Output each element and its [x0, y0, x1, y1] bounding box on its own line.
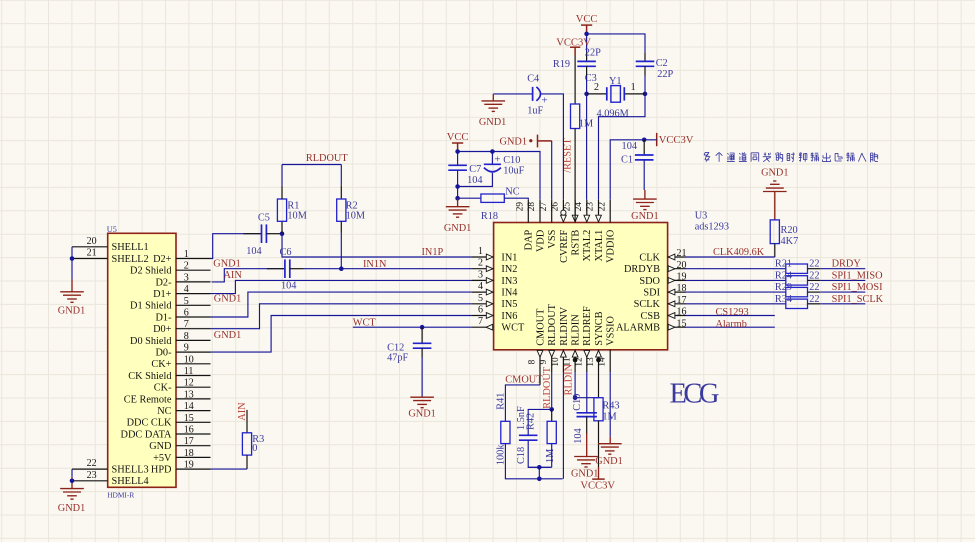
- svg-text:C10: C10: [503, 155, 520, 166]
- svg-text:RSTB: RSTB: [571, 230, 582, 256]
- wire R41 to rail: [505, 444, 562, 479]
- svg-text:SHELL2: SHELL2: [112, 254, 149, 265]
- U3 pin 22 VDDIO: [609, 200, 611, 223]
- svg-text:18: 18: [184, 448, 194, 459]
- svg-text:11: 11: [184, 366, 194, 377]
- svg-text:14: 14: [184, 401, 194, 412]
- wire U5 pin9 to U3 IN6: [211, 316, 473, 353]
- U3 pin 20 DRDYB: [668, 268, 686, 270]
- svg-text:21: 21: [87, 248, 97, 259]
- wire VSSIO to ground: [609, 372, 611, 437]
- svg-text:GND1: GND1: [571, 469, 598, 480]
- svg-text:13: 13: [586, 357, 596, 367]
- wire IN1P to U3 IN1: [282, 234, 472, 257]
- svg-text:C18: C18: [516, 447, 527, 464]
- resistor R34: [786, 299, 808, 308]
- svg-text:21: 21: [677, 248, 687, 259]
- junction: [280, 231, 285, 236]
- U5 pin 19 HPD: [176, 468, 211, 470]
- svg-text:100k: 100k: [495, 444, 506, 465]
- svg-text:20: 20: [87, 236, 97, 247]
- svg-text:D2 Shield: D2 Shield: [130, 266, 172, 277]
- U5 pin 15 DDC CLK: [176, 421, 211, 423]
- ground GND1 under C1: [633, 199, 657, 210]
- svg-text:AIN: AIN: [224, 270, 243, 281]
- svg-text:C2: C2: [656, 58, 668, 69]
- svg-text:23: 23: [87, 470, 97, 481]
- svg-text:GND1: GND1: [58, 503, 85, 514]
- svg-text:SCLK: SCLK: [634, 299, 661, 310]
- svg-text:SPI1_MOSI: SPI1_MOSI: [832, 282, 883, 293]
- svg-text:U3: U3: [695, 211, 708, 222]
- U5 pin 9 D0-: [176, 351, 211, 353]
- svg-text:+: +: [494, 153, 500, 165]
- svg-text:15: 15: [677, 318, 687, 329]
- svg-text:R24: R24: [775, 270, 792, 281]
- wire RLDOUT: [551, 372, 553, 409]
- U3 pin 29 DAP: [527, 200, 529, 223]
- svg-text:D1+: D1+: [153, 289, 172, 300]
- wire IN1P riser from U5 pin1: [211, 234, 262, 259]
- resistor R24: [786, 276, 808, 285]
- U5 pin 10 CK+: [176, 363, 211, 365]
- wire to R18: [458, 197, 481, 199]
- svg-text:5: 5: [478, 293, 483, 304]
- junction: [455, 184, 460, 189]
- svg-text:18: 18: [677, 283, 687, 294]
- wire R19 to RSTB: [574, 129, 576, 223]
- svg-text:GND1: GND1: [761, 168, 788, 179]
- U5 pin 7 D0+: [176, 328, 211, 330]
- U3 pin 15 ALARMB: [668, 326, 686, 328]
- svg-text:VSS: VSS: [547, 229, 558, 248]
- svg-text:IN5: IN5: [501, 299, 517, 310]
- svg-text:10uF: 10uF: [503, 165, 524, 176]
- svg-text:C1: C1: [621, 154, 633, 165]
- svg-text:R42: R42: [525, 413, 536, 430]
- svg-text:GND1: GND1: [479, 117, 506, 128]
- U3 pin 25 RSTB: [574, 200, 576, 223]
- svg-text:VCC: VCC: [447, 132, 469, 143]
- svg-text:10: 10: [551, 357, 561, 367]
- svg-text:12: 12: [184, 378, 194, 389]
- svg-text:DDC DATA: DDC DATA: [121, 429, 173, 440]
- U5 pin 14 NC: [176, 410, 211, 412]
- wire U5 pin4 to U3 IN3: [211, 280, 473, 293]
- svg-text:CK+: CK+: [151, 359, 171, 370]
- svg-text:DDC CLK: DDC CLK: [127, 418, 172, 429]
- IC U3 ads1293 body: [494, 223, 668, 350]
- U5 pin 3 D2-: [176, 281, 211, 283]
- power port VCC3V bottom: [592, 478, 605, 480]
- wire RLDOUT net: [282, 164, 341, 166]
- svg-text:IN2: IN2: [501, 264, 517, 275]
- svg-text:GND1: GND1: [408, 408, 435, 419]
- capacitor C12: [421, 327, 423, 343]
- wire WCT to U3 pin7: [353, 326, 472, 328]
- svg-text:+5V: +5V: [153, 453, 172, 464]
- svg-text:13: 13: [184, 389, 194, 400]
- junction R2 on IN1N: [339, 266, 344, 271]
- chinese note text: [704, 152, 878, 162]
- junction: [455, 196, 460, 201]
- capacitor C10 polarized: [491, 152, 493, 165]
- wire U3 to R21: [686, 268, 786, 270]
- resistor R43: [594, 398, 603, 421]
- svg-text:17: 17: [677, 295, 687, 306]
- wire C18/R42 bottoms: [528, 440, 552, 467]
- svg-text:22: 22: [809, 259, 819, 270]
- resistor R19: [574, 56, 576, 105]
- svg-text:22: 22: [809, 282, 819, 293]
- U3 pin 26 CVREF: [562, 200, 564, 223]
- wire RLDINV to rail: [562, 372, 564, 479]
- svg-text:R29: R29: [775, 282, 792, 293]
- svg-text:R34: R34: [775, 294, 792, 305]
- svg-text:8: 8: [528, 359, 538, 364]
- svg-text:7: 7: [184, 319, 189, 330]
- junction C12 on WCT: [420, 325, 425, 330]
- svg-text:15: 15: [184, 413, 194, 424]
- U5 pin 23 SHELL4: [72, 480, 108, 482]
- svg-text:GND1: GND1: [595, 456, 622, 467]
- wire C12 to ground: [421, 348, 423, 357]
- wire R18 to DAP: [504, 198, 528, 200]
- svg-text:12: 12: [574, 357, 584, 367]
- svg-text:SHELL4: SHELL4: [112, 476, 149, 487]
- svg-text:C6: C6: [280, 247, 292, 258]
- svg-text:VCC: VCC: [576, 14, 598, 25]
- svg-text:Y1: Y1: [609, 76, 622, 87]
- U3 pin 24 XTAL2: [586, 200, 588, 223]
- wire AIN from U5 pin3: [212, 269, 285, 282]
- wire C3 to XTAL2: [586, 66, 588, 75]
- svg-text:IN4: IN4: [501, 288, 517, 299]
- svg-text:CE Remote: CE Remote: [124, 394, 172, 405]
- U3 pin 5 IN5: [472, 303, 494, 305]
- svg-text:19: 19: [677, 272, 687, 283]
- svg-text:6: 6: [184, 308, 189, 319]
- svg-text:VCC3V: VCC3V: [556, 37, 591, 48]
- svg-text:HPD: HPD: [151, 465, 172, 476]
- svg-text:SHELL3: SHELL3: [112, 465, 149, 476]
- svg-text:R18: R18: [481, 211, 498, 222]
- power port VCC3V (R19): [570, 47, 580, 55]
- U3 pin 19 SDO: [668, 279, 686, 281]
- svg-text:GND1: GND1: [214, 293, 241, 304]
- wire U5 pin7 to U3 IN5: [211, 304, 473, 329]
- svg-text:22: 22: [809, 294, 819, 305]
- svg-text:CMOUT: CMOUT: [535, 308, 546, 346]
- svg-text:R43: R43: [602, 400, 619, 411]
- wire C2 to XTAL1 node: [644, 66, 646, 75]
- ground GND1 top-left: [60, 292, 84, 303]
- svg-text:4: 4: [478, 281, 483, 292]
- svg-text:CS1293: CS1293: [716, 307, 749, 318]
- svg-text:RLDREF: RLDREF: [582, 306, 593, 346]
- svg-text:14: 14: [598, 357, 608, 367]
- U3 pin 14 VSSIO: [609, 350, 611, 372]
- svg-text:D0-: D0-: [155, 348, 172, 359]
- U5 pin 2 D2 Shield: [176, 269, 211, 271]
- svg-text:HDMI-R: HDMI-R: [107, 491, 134, 500]
- U3 pin 21 CLK: [668, 256, 686, 258]
- svg-text:104: 104: [573, 428, 584, 443]
- U3 pin 3 IN3: [472, 279, 494, 281]
- U5 pin 20 SHELL1: [72, 246, 108, 248]
- svg-text:SDI: SDI: [643, 288, 660, 299]
- wire R24 out: [808, 279, 821, 281]
- svg-text:GND: GND: [149, 441, 172, 452]
- svg-text:19: 19: [184, 460, 194, 471]
- U3 pin 17 SCLK: [668, 303, 686, 305]
- svg-text:2: 2: [184, 261, 189, 272]
- wire U5 pin22/23 to ground: [71, 469, 73, 477]
- svg-text:5: 5: [184, 296, 189, 307]
- wire ALARMB: [686, 326, 775, 328]
- resistor R21: [786, 264, 808, 273]
- U3 pin 23 XTAL1: [598, 200, 600, 223]
- wire VCC to C2/C3: [587, 34, 645, 52]
- svg-text:RLDOUT: RLDOUT: [547, 303, 558, 345]
- svg-text:C4: C4: [527, 74, 539, 85]
- wire RLDIN to R43: [575, 397, 598, 399]
- ground GND1 bottom-left: [60, 489, 84, 500]
- wire XTAL1 net: [599, 94, 646, 200]
- svg-text:RLDIN: RLDIN: [571, 314, 582, 346]
- U5 pin 11 CK Shield: [176, 375, 211, 377]
- svg-text:20: 20: [677, 260, 687, 271]
- svg-text:26: 26: [551, 202, 561, 212]
- svg-text:NC: NC: [505, 186, 519, 197]
- svg-text:D0+: D0+: [153, 324, 172, 335]
- U5 pin 22 SHELL3: [72, 468, 108, 470]
- svg-text:1: 1: [478, 246, 483, 257]
- wire RLDIN: [574, 372, 576, 398]
- junction: [70, 479, 75, 484]
- wire CLK: [686, 256, 775, 258]
- wire C4 to CVREF: [541, 94, 564, 200]
- ground GND1 under C7: [457, 198, 459, 206]
- wire R34 out: [808, 303, 821, 305]
- U3 pin 1 IN1: [472, 256, 494, 258]
- svg-text:16: 16: [677, 307, 687, 318]
- U5 pin 18 +5V: [176, 456, 211, 458]
- wire U3 to R34: [686, 303, 786, 305]
- U3 pin 8 CMOUT: [539, 350, 541, 372]
- svg-text:NC: NC: [157, 406, 171, 417]
- svg-text:GND1: GND1: [444, 223, 471, 234]
- svg-text:47pF: 47pF: [387, 352, 408, 363]
- svg-text:D2-: D2-: [155, 277, 172, 288]
- svg-text:GND1: GND1: [631, 211, 658, 222]
- power port VCC3V right: [656, 133, 658, 146]
- U3 pin 7 WCT: [472, 326, 494, 328]
- U5 pin 12 CK-: [176, 386, 211, 388]
- svg-text:1: 1: [184, 249, 189, 260]
- svg-text:IN1N: IN1N: [363, 259, 387, 270]
- U5 pin 8 D0 Shield: [176, 339, 211, 341]
- svg-text:17: 17: [184, 436, 194, 447]
- svg-text:VDD: VDD: [535, 229, 546, 252]
- wire RLDREF to C19: [586, 372, 588, 413]
- svg-text:22P: 22P: [657, 69, 673, 80]
- svg-text:IN3: IN3: [501, 276, 517, 287]
- svg-text:GND1: GND1: [500, 137, 527, 148]
- U3 pin 28 VDD: [539, 200, 541, 223]
- svg-text:IN1P: IN1P: [422, 247, 444, 258]
- svg-text:WCT: WCT: [353, 318, 377, 329]
- wire C1 to ground: [643, 160, 645, 190]
- junction: [549, 407, 554, 412]
- svg-text:104: 104: [467, 175, 482, 186]
- svg-text:R19: R19: [553, 59, 570, 70]
- junction: [537, 465, 542, 470]
- svg-text:U5: U5: [107, 225, 117, 234]
- wire C19 to ground: [586, 417, 588, 434]
- svg-text:2: 2: [478, 258, 483, 269]
- U5 pin 17 GND: [176, 445, 211, 447]
- wire U3 to R24: [686, 279, 786, 281]
- svg-text:DAP: DAP: [524, 229, 535, 250]
- svg-text:RLDOUT: RLDOUT: [542, 366, 553, 408]
- svg-text:GND1: GND1: [58, 306, 85, 317]
- wire to C18: [528, 409, 552, 435]
- svg-text:GND1: GND1: [213, 259, 240, 270]
- wire U3 to R29: [686, 291, 786, 293]
- svg-text:ALARMB: ALARMB: [616, 323, 660, 334]
- capacitor C5: [244, 233, 262, 235]
- svg-text:1M: 1M: [602, 411, 616, 422]
- wire C10 bottom: [458, 173, 493, 187]
- capacitor C3: [577, 61, 596, 66]
- svg-text:1: 1: [631, 82, 636, 93]
- svg-text:XTAL1: XTAL1: [594, 230, 605, 262]
- resistor R42: [551, 409, 553, 421]
- svg-text:27: 27: [539, 202, 549, 212]
- wire IN1N to U3 IN2: [290, 268, 304, 270]
- U5 pin 5 D1 Shield: [176, 304, 211, 306]
- capacitor C2: [636, 61, 655, 66]
- svg-text:IN1: IN1: [501, 252, 517, 263]
- svg-text:VCC3V: VCC3V: [580, 480, 615, 491]
- svg-text:6: 6: [478, 305, 483, 316]
- svg-text:0: 0: [252, 443, 257, 454]
- svg-text:2: 2: [594, 82, 599, 93]
- svg-text:GND1: GND1: [214, 330, 241, 341]
- svg-text:ads1293: ads1293: [695, 221, 729, 232]
- resistor R41: [501, 421, 510, 443]
- svg-text:9: 9: [539, 359, 549, 364]
- svg-text:WCT: WCT: [501, 323, 525, 334]
- U5 pin 13 CE Remote: [176, 398, 211, 400]
- svg-text:22: 22: [809, 270, 819, 281]
- wire R21 out: [808, 268, 821, 270]
- svg-text:3: 3: [184, 272, 189, 283]
- svg-text:104: 104: [622, 141, 637, 152]
- U5 pin 6 D1-: [176, 316, 211, 318]
- svg-text:104: 104: [281, 281, 296, 292]
- svg-text:104: 104: [246, 246, 261, 257]
- U3 pin 13 SYNCB: [598, 350, 600, 372]
- svg-text:29: 29: [516, 202, 526, 212]
- capacitor C19: [577, 413, 597, 417]
- junction: [70, 256, 75, 261]
- svg-text:DRDY: DRDY: [832, 259, 862, 270]
- svg-text:C5: C5: [258, 212, 270, 223]
- U5 pin 1 D2+: [176, 258, 211, 260]
- svg-text:1M: 1M: [545, 449, 556, 463]
- svg-text:ECG: ECG: [670, 378, 720, 409]
- svg-text:/RESET: /RESET: [562, 138, 573, 173]
- svg-text:8: 8: [184, 331, 189, 342]
- junction: [584, 92, 589, 97]
- svg-text:RLDINV: RLDINV: [559, 306, 570, 345]
- svg-text:SPI1_SCLK: SPI1_SCLK: [832, 294, 884, 305]
- svg-text:IN6: IN6: [501, 311, 517, 322]
- wire VDDIO net: [610, 140, 657, 200]
- svg-text:4.096M: 4.096M: [597, 108, 629, 119]
- svg-text:SYNCB: SYNCB: [594, 311, 605, 345]
- svg-text:7: 7: [478, 316, 483, 327]
- svg-text:R21: R21: [775, 259, 792, 270]
- U3 pin 16 CSB: [668, 315, 686, 317]
- svg-text:3: 3: [478, 269, 483, 280]
- U3 pin 9 RLDOUT: [551, 350, 553, 372]
- ground GND1 under C12: [410, 397, 434, 408]
- svg-text:10: 10: [184, 354, 194, 365]
- wire VCC to VDD: [458, 152, 540, 200]
- svg-text:VCC3V: VCC3V: [659, 135, 694, 146]
- U3 pin 18 SDI: [668, 291, 686, 293]
- junction C10: [490, 149, 495, 154]
- svg-text:DRDYB: DRDYB: [624, 264, 660, 275]
- svg-text:22: 22: [87, 458, 97, 469]
- wire CMOUT: [539, 372, 541, 385]
- U5 pin 4 D1+: [176, 293, 211, 295]
- svg-text:22: 22: [597, 202, 607, 212]
- junction: [573, 395, 578, 400]
- connector U5 HDMI-R body: [108, 233, 176, 487]
- resistor R18: [481, 194, 504, 202]
- U3 pin 10 RLDINV: [562, 350, 564, 372]
- svg-text:CVREF: CVREF: [559, 229, 570, 262]
- junction: [537, 477, 542, 482]
- resistor R1: [281, 221, 283, 233]
- junction C1: [642, 138, 647, 143]
- svg-text:9: 9: [184, 343, 189, 354]
- svg-text:R41: R41: [495, 393, 506, 410]
- resistor R29: [786, 287, 808, 296]
- ground GND1 under C19: [574, 457, 598, 468]
- svg-text:10M: 10M: [287, 211, 306, 222]
- wire CSB: [686, 315, 775, 317]
- svg-text:XTAL2: XTAL2: [582, 230, 593, 262]
- wire R29 out: [808, 291, 821, 293]
- junction: [455, 149, 460, 154]
- power port GND1 (VSS): [538, 135, 552, 148]
- U3 pin 27 VSS: [551, 200, 553, 223]
- svg-text:4K7: 4K7: [781, 236, 799, 247]
- svg-text:SDO: SDO: [639, 276, 660, 287]
- U3 pin 11 RLDIN: [574, 350, 576, 372]
- capacitor C18: [519, 435, 538, 440]
- svg-text:1uF: 1uF: [527, 105, 543, 116]
- wire C5 to R1 junction: [266, 233, 282, 235]
- svg-text:D1-: D1-: [155, 312, 172, 323]
- svg-text:RLDOUT: RLDOUT: [306, 153, 348, 164]
- svg-text:1M: 1M: [579, 118, 593, 129]
